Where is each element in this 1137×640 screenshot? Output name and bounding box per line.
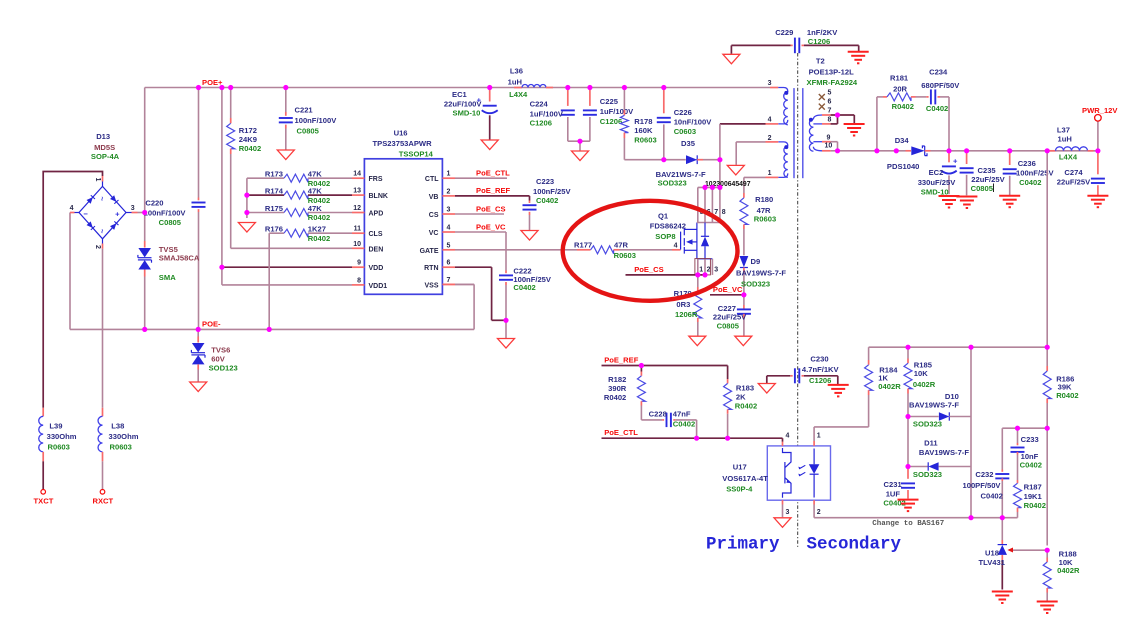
resistor R178 (160K) xyxy=(623,88,625,111)
wire bridge output vertical (D13 pin3 to POE+ / POE-) xyxy=(144,88,146,242)
svg-text:1: 1 xyxy=(699,267,703,274)
wire Q1 drain bus xyxy=(698,186,720,188)
pin 11 CLS U16 xyxy=(352,232,364,234)
resistor R172 (24K9) POE+ to DEN xyxy=(230,88,232,119)
pin 10 DEN U16 xyxy=(352,247,364,249)
diode bridge D13 (MD5S) xyxy=(79,186,126,238)
capacitor C227 (22uF/25V) xyxy=(743,295,745,305)
terminal RXCT xyxy=(100,490,105,495)
svg-text:100nF/100V: 100nF/100V xyxy=(295,116,338,125)
no-connect X marks pins 5/6 xyxy=(819,94,825,110)
svg-text:BLNK: BLNK xyxy=(369,193,388,200)
capacitor C223 (100nF/25V) xyxy=(529,201,531,204)
svg-text:Secondary: Secondary xyxy=(807,534,902,554)
svg-text:TPS23753APWR: TPS23753APWR xyxy=(373,139,433,148)
op-amp U17 VOS617A-4T optocoupler box xyxy=(767,446,830,500)
svg-text:D35: D35 xyxy=(681,139,696,148)
svg-text:R187: R187 xyxy=(1024,483,1042,492)
svg-text:GATE: GATE xyxy=(420,248,439,255)
svg-text:PoE_CS: PoE_CS xyxy=(634,265,664,274)
svg-text:C220: C220 xyxy=(145,199,163,208)
svg-text:C0402: C0402 xyxy=(673,419,695,428)
svg-text:1: 1 xyxy=(94,178,101,182)
ground C227 xyxy=(735,336,752,346)
svg-text:4: 4 xyxy=(674,242,678,249)
ground T2 pin2 xyxy=(727,165,744,175)
svg-text:0402R: 0402R xyxy=(913,380,936,389)
capacitor C221 on POE+ xyxy=(285,88,287,113)
ground R179 xyxy=(689,336,706,346)
svg-text:C0805: C0805 xyxy=(297,126,320,135)
svg-text:C0402: C0402 xyxy=(926,104,948,113)
svg-text:PoE_REF: PoE_REF xyxy=(604,355,639,364)
ground TVS6 xyxy=(190,382,207,392)
svg-text:TVS6: TVS6 xyxy=(211,346,230,355)
capacitor C232 (100PF/50V) xyxy=(1001,428,1003,469)
wire C232/C233 top horizontal xyxy=(1002,427,1047,429)
capacitor C225 (1uF/100V) xyxy=(589,88,591,106)
ground C230 left xyxy=(758,384,775,394)
svg-text:PoE_CTL: PoE_CTL xyxy=(604,428,638,437)
svg-text:390R: 390R xyxy=(608,384,627,393)
svg-text:BAV19WS-7-F: BAV19WS-7-F xyxy=(909,401,959,410)
svg-text:100nF/25V: 100nF/25V xyxy=(1016,169,1055,178)
svg-text:C235: C235 xyxy=(978,166,997,175)
ground C229 right (secondary) xyxy=(848,51,869,53)
svg-text:10: 10 xyxy=(825,142,833,149)
wire PoE_CTL stub pin1 xyxy=(455,177,507,179)
svg-text:C0402: C0402 xyxy=(981,492,1003,501)
svg-text:C231: C231 xyxy=(884,480,903,489)
diode D9 (BAV19WS-7-F) xyxy=(740,256,749,267)
svg-text:BAV19WS-7-F: BAV19WS-7-F xyxy=(919,448,969,457)
svg-text:330Ohm: 330Ohm xyxy=(109,432,139,441)
svg-text:22uF/100V: 22uF/100V xyxy=(444,99,483,108)
svg-text:3: 3 xyxy=(131,205,135,212)
svg-text:L4X4: L4X4 xyxy=(1059,153,1078,162)
wire T2 pin10 lead / output xyxy=(822,150,831,152)
resistor R188 (10K) xyxy=(1046,550,1048,557)
resistor R179 (0R3) xyxy=(697,275,699,287)
transformer T2 primary winding upper (pins 3-4) xyxy=(770,87,778,89)
wire snubber left leg R181/C234 xyxy=(876,97,878,151)
svg-text:CS: CS xyxy=(429,212,439,219)
wire R185 leg xyxy=(907,347,909,358)
resistor R182 (390R) xyxy=(640,366,642,372)
svg-text:24K9: 24K9 xyxy=(239,135,257,144)
capacitor C234 (680PF/50V) xyxy=(926,96,928,98)
svg-text:SOP-4A: SOP-4A xyxy=(91,152,120,161)
svg-text:~: ~ xyxy=(98,229,107,234)
resistor R185 (10K) xyxy=(904,363,912,388)
svg-text:5: 5 xyxy=(828,89,832,96)
capacitor C226 (10nF/100V) xyxy=(663,88,665,114)
svg-text:4: 4 xyxy=(70,205,74,212)
svg-text:PWR_12V: PWR_12V xyxy=(1082,106,1118,115)
svg-text:PoE_CTL: PoE_CTL xyxy=(476,168,510,177)
wire POE- rail xyxy=(70,328,474,330)
svg-text:47K: 47K xyxy=(308,186,322,195)
svg-text:14: 14 xyxy=(353,171,361,178)
svg-text:RTN: RTN xyxy=(424,265,438,272)
svg-text:C0805: C0805 xyxy=(717,322,740,331)
svg-text:L37: L37 xyxy=(1057,126,1070,135)
svg-text:8: 8 xyxy=(357,277,361,284)
inductor L38 (330Ohm) xyxy=(102,408,104,417)
svg-text:11: 11 xyxy=(354,226,362,233)
svg-text:BAV21WS-7-F: BAV21WS-7-F xyxy=(656,170,706,179)
svg-text:VB: VB xyxy=(429,194,439,201)
U17 led xyxy=(813,449,815,465)
svg-text:1uF/100V: 1uF/100V xyxy=(530,109,564,118)
pin 1 CTL U16 xyxy=(442,177,455,179)
svg-text:R0402: R0402 xyxy=(308,213,330,222)
svg-text:TSSOP14: TSSOP14 xyxy=(399,149,434,158)
svg-text:SS0P-4: SS0P-4 xyxy=(726,485,753,494)
svg-text:D9: D9 xyxy=(751,257,761,266)
pin 14 FRS U16 xyxy=(352,177,364,179)
svg-text:PoE_CS: PoE_CS xyxy=(476,205,506,214)
svg-text:SOD323: SOD323 xyxy=(658,179,687,188)
capacitor C230 (4.7nF/1KV) gnd bridge xyxy=(767,375,791,377)
svg-text:RXCT: RXCT xyxy=(93,497,114,506)
capacitor C220 xyxy=(192,202,206,204)
svg-text:SMD-10: SMD-10 xyxy=(453,108,481,117)
svg-text:1UF: 1UF xyxy=(886,489,901,498)
ground U18 (secondary) xyxy=(992,591,1013,593)
pin 7 VSS U16 xyxy=(442,283,455,285)
svg-text:C223: C223 xyxy=(536,177,554,186)
svg-text:POE13P-12L: POE13P-12L xyxy=(809,67,855,76)
svg-text:PoE_VC: PoE_VC xyxy=(476,223,506,232)
svg-text:5: 5 xyxy=(447,242,451,249)
svg-text:1uH: 1uH xyxy=(508,78,522,87)
svg-text:R182: R182 xyxy=(608,375,626,384)
wire R184 to U17 pin1 xyxy=(814,426,869,428)
terminal PWR_12V xyxy=(1097,121,1099,151)
wire R184 leg xyxy=(868,347,870,360)
svg-text:C0402: C0402 xyxy=(1020,460,1042,469)
ground C229 left xyxy=(723,54,740,64)
svg-text:R175: R175 xyxy=(265,204,284,213)
resistor R180 (47R) xyxy=(743,193,745,198)
wire T2 pin4 to Q1 drain node xyxy=(719,124,721,187)
svg-text:3: 3 xyxy=(786,509,790,516)
svg-text:1: 1 xyxy=(768,170,772,177)
svg-text:SMD-10: SMD-10 xyxy=(921,187,949,196)
svg-text:10nF/100V: 10nF/100V xyxy=(674,118,713,127)
svg-text:C0402: C0402 xyxy=(536,196,558,205)
svg-text:Primary: Primary xyxy=(706,534,780,554)
svg-text:C229: C229 xyxy=(775,28,793,37)
svg-text:U18: U18 xyxy=(985,548,999,557)
svg-text:C274: C274 xyxy=(1064,168,1083,177)
wire T2 pin7 lead to ground xyxy=(822,114,831,116)
ground EC1 xyxy=(481,140,498,150)
svg-text:12: 12 xyxy=(353,205,361,212)
wire VSS to POE- xyxy=(473,284,475,329)
wire RTN pin6 (dark) xyxy=(455,266,492,268)
wire R176 to POE- xyxy=(268,233,270,329)
svg-text:R0402: R0402 xyxy=(735,401,757,410)
pin 1 U17 xyxy=(813,441,815,446)
pin 5 GATE U16 xyxy=(442,249,455,251)
svg-text:13: 13 xyxy=(353,188,361,195)
diode D11 (BAV19WS-7-F) xyxy=(908,466,928,468)
svg-text:4.7nF/1KV: 4.7nF/1KV xyxy=(802,365,840,374)
svg-text:D11: D11 xyxy=(924,438,938,447)
svg-text:R0402: R0402 xyxy=(892,102,914,111)
svg-text:TLV431: TLV431 xyxy=(979,558,1006,567)
wire VB to C223 (dark) xyxy=(455,195,530,197)
svg-text:C0805: C0805 xyxy=(159,218,182,227)
svg-text:SOD323: SOD323 xyxy=(741,280,770,289)
resistor R187 (19K1) xyxy=(1017,480,1019,483)
svg-text:47K: 47K xyxy=(308,170,322,179)
svg-text:C224: C224 xyxy=(530,100,549,109)
wire T2 pin8 lead xyxy=(813,123,822,125)
svg-text:1uH: 1uH xyxy=(1058,134,1072,143)
svg-text:22uF/25V: 22uF/25V xyxy=(713,313,747,322)
svg-text:C1206: C1206 xyxy=(530,118,552,127)
resistor R177 (47R) xyxy=(591,246,614,254)
svg-text:POE-: POE- xyxy=(202,320,221,329)
ground U17 pin3 xyxy=(774,518,791,528)
pin 4 U17 xyxy=(782,438,784,442)
wire D13 pin1 to L39 (dark) xyxy=(102,182,104,187)
wire secondary output rail xyxy=(838,150,906,152)
svg-text:C1206: C1206 xyxy=(600,117,622,126)
wire C224/C225 join xyxy=(568,140,590,142)
svg-text:+: + xyxy=(115,210,120,219)
svg-text:SOD323: SOD323 xyxy=(913,419,942,428)
svg-text:3: 3 xyxy=(447,207,451,214)
svg-text:4: 4 xyxy=(447,225,451,232)
svg-text:1K27: 1K27 xyxy=(308,225,326,234)
resistor R184 (1K) xyxy=(865,365,873,390)
resistor R175 (47K) APD xyxy=(247,212,284,214)
svg-text:L39: L39 xyxy=(49,422,62,431)
ground C236 (secondary) xyxy=(999,195,1020,197)
svg-text:20R: 20R xyxy=(893,84,907,93)
svg-text:1: 1 xyxy=(817,432,821,439)
wire DEN pin10 xyxy=(231,247,352,249)
wire Q1 drain stubs pins 5-8 xyxy=(697,187,699,222)
pin 6 RTN U16 xyxy=(442,266,455,268)
ground R188 (secondary) xyxy=(1037,601,1058,603)
svg-text:R0603: R0603 xyxy=(48,442,70,451)
transistor U18 TLV431 xyxy=(998,544,1007,546)
Q1 body diode xyxy=(704,223,706,237)
svg-text:~: ~ xyxy=(98,197,107,202)
resistor R186 (39K) xyxy=(1043,371,1051,398)
svg-text:19K1: 19K1 xyxy=(1024,492,1043,501)
svg-text:C226: C226 xyxy=(674,108,692,117)
svg-text:7: 7 xyxy=(828,107,832,114)
wire C220 vertical POE+ to POE- xyxy=(198,88,200,198)
svg-text:R183: R183 xyxy=(736,384,754,393)
inductor L39 (330Ohm) xyxy=(42,408,44,417)
svg-text:D34: D34 xyxy=(895,136,910,145)
svg-text:22uF/25V: 22uF/25V xyxy=(971,175,1005,184)
ground C224/C225 xyxy=(572,151,589,161)
svg-text:8: 8 xyxy=(722,209,726,216)
svg-text:R0402: R0402 xyxy=(1056,391,1078,400)
svg-text:R177: R177 xyxy=(574,240,592,249)
capacitor EC1 (22uF/100V) xyxy=(489,88,491,102)
U17 phototransistor xyxy=(783,448,792,467)
svg-text:47R: 47R xyxy=(614,240,628,249)
svg-text:100PF/50V: 100PF/50V xyxy=(963,481,1002,490)
pin 9 VDD U16 xyxy=(352,266,364,268)
ground C223 xyxy=(521,231,538,241)
resistor R181 (20R) xyxy=(887,93,911,101)
capacitor C222 (100nF/25V) xyxy=(505,271,507,274)
svg-text:C221: C221 xyxy=(295,105,314,114)
wire feedback vertical from output xyxy=(1046,151,1048,366)
wire Q1 source stubs pins 1-3 xyxy=(697,259,699,275)
svg-text:C232: C232 xyxy=(975,470,993,479)
svg-text:100nF/100V: 100nF/100V xyxy=(144,209,187,218)
resistor R176 (1K27) CLS xyxy=(269,232,284,234)
svg-text:10K: 10K xyxy=(914,369,928,378)
wire D13 pin3 lead xyxy=(126,212,132,214)
svg-text:L36: L36 xyxy=(510,67,523,76)
resistor R173 (47K) FRS xyxy=(247,177,284,179)
ground C231 (secondary) xyxy=(898,499,919,501)
svg-text:160K: 160K xyxy=(634,126,653,135)
svg-text:C236: C236 xyxy=(1018,159,1036,168)
svg-text:4: 4 xyxy=(786,432,790,439)
capacitor C229 (1nF/2KV) primary-secondary bridge xyxy=(731,44,790,46)
svg-text:+: + xyxy=(953,157,958,166)
svg-text:VC: VC xyxy=(429,230,439,237)
svg-text:APD: APD xyxy=(369,211,384,218)
svg-text:330uF/25V: 330uF/25V xyxy=(918,178,957,187)
wire bridge pin4 to POE- xyxy=(69,213,71,330)
wire PoE_VC to C227 (dark) xyxy=(710,294,744,296)
op-amp U16 TPS23753APWR box xyxy=(364,159,442,294)
pin 12 APD U16 xyxy=(352,212,364,214)
inductor L37 (1uH) xyxy=(1047,150,1049,152)
svg-text:FDS86242: FDS86242 xyxy=(650,222,686,231)
capacitor C231 (1UF) xyxy=(907,467,909,479)
svg-text:CLS: CLS xyxy=(369,231,383,238)
svg-text:100nF/25V: 100nF/25V xyxy=(533,187,572,196)
svg-text:VDD1: VDD1 xyxy=(369,283,388,290)
svg-text:R0603: R0603 xyxy=(634,135,656,144)
svg-text:R0603: R0603 xyxy=(614,251,636,260)
wire D13 pin4 lead xyxy=(75,212,80,214)
wire GATE to R177 xyxy=(455,249,577,251)
red annotation ellipse around Q1 xyxy=(563,201,738,301)
svg-text:SMA: SMA xyxy=(159,273,176,282)
svg-text:R174: R174 xyxy=(265,186,284,195)
svg-text:R180: R180 xyxy=(755,195,773,204)
pin 4 VC U16 xyxy=(442,231,455,233)
wire primary/secondary separator (dash-dot) xyxy=(797,53,799,547)
wire lower feedback horizontal xyxy=(814,517,1017,519)
svg-text:VOS617A-4T: VOS617A-4T xyxy=(722,474,768,483)
diode D34 PDS1040 schottky xyxy=(911,146,924,155)
svg-text:0402R: 0402R xyxy=(878,382,901,391)
svg-text:6: 6 xyxy=(828,98,832,105)
svg-text:DEN: DEN xyxy=(369,246,384,253)
svg-text:R0402: R0402 xyxy=(308,234,330,243)
svg-text:PoE_REF: PoE_REF xyxy=(476,186,511,195)
svg-text:C1206: C1206 xyxy=(808,37,830,46)
svg-text:R0402: R0402 xyxy=(1024,501,1046,510)
svg-text:2: 2 xyxy=(447,188,451,195)
pin 2 VB U16 xyxy=(442,195,455,197)
svg-text:R0603: R0603 xyxy=(754,215,776,224)
wire POE+ rail xyxy=(145,87,770,89)
transformer T2 primary winding lower (pins 2-1) xyxy=(778,142,788,146)
capacitor C236 (100nF/25V) xyxy=(1009,151,1011,165)
pin 3 U17 to ground xyxy=(782,500,784,504)
svg-text:330Ohm: 330Ohm xyxy=(47,432,77,441)
svg-text:FRS: FRS xyxy=(369,176,383,183)
capacitor C224 (1uF/100V) xyxy=(567,88,569,106)
ground EC2 (secondary) xyxy=(939,195,960,197)
svg-text:0402R: 0402R xyxy=(1057,566,1080,575)
transformer T2 secondary winding xyxy=(813,115,822,119)
ground C235 (secondary) xyxy=(956,196,977,198)
svg-text:U16: U16 xyxy=(394,129,408,138)
terminal TXCT xyxy=(41,490,46,495)
junction dots xyxy=(196,85,201,90)
svg-text:2K: 2K xyxy=(736,392,746,401)
wire T2 pin9 lead xyxy=(813,141,822,143)
svg-text:R0402: R0402 xyxy=(604,393,626,402)
svg-text:U17: U17 xyxy=(733,462,747,471)
svg-text:PDS1040: PDS1040 xyxy=(887,162,920,171)
svg-text:MD5S: MD5S xyxy=(94,143,115,152)
wire PoE_CS to Q1 source (dark) xyxy=(626,274,706,276)
svg-text:R173: R173 xyxy=(265,170,283,179)
svg-text:C0402: C0402 xyxy=(1019,178,1041,187)
capacitor C233 (10nF) xyxy=(1017,428,1019,443)
svg-text:680PF/50V: 680PF/50V xyxy=(921,81,960,90)
svg-text:C228: C228 xyxy=(649,410,667,419)
svg-text:PoE_VC: PoE_VC xyxy=(713,285,743,294)
svg-text:60V: 60V xyxy=(211,354,225,363)
svg-text:10: 10 xyxy=(353,241,361,248)
svg-text:R172: R172 xyxy=(239,126,257,135)
svg-text:EC2: EC2 xyxy=(929,168,944,177)
svg-text:R178: R178 xyxy=(634,117,652,126)
resistor R174 (47K) BLNK xyxy=(247,194,284,196)
svg-text:Change to BAS167: Change to BAS167 xyxy=(872,520,944,528)
wire R178 to C226 bottom xyxy=(624,159,663,161)
svg-text:47nF: 47nF xyxy=(673,410,691,419)
ground T2 pin7/8 (secondary) xyxy=(844,123,865,125)
diode D10 (BAV19WS-7-F) xyxy=(908,416,939,418)
svg-text:1: 1 xyxy=(447,171,451,178)
svg-text:3: 3 xyxy=(714,267,718,274)
wire VDD1 pin8 xyxy=(222,284,352,286)
svg-text:T2: T2 xyxy=(816,57,825,66)
wire upper feedback horizontal xyxy=(869,346,1048,348)
svg-text:C1206: C1206 xyxy=(809,376,831,385)
svg-text:2: 2 xyxy=(94,245,101,249)
ground C221 xyxy=(277,150,294,160)
ground C230 right (secondary) xyxy=(828,384,849,386)
svg-text:C233: C233 xyxy=(1021,435,1039,444)
svg-text:SMAJ58CA: SMAJ58CA xyxy=(159,254,200,263)
svg-text:C234: C234 xyxy=(929,68,948,77)
wire R185 to D11 node xyxy=(907,417,909,467)
